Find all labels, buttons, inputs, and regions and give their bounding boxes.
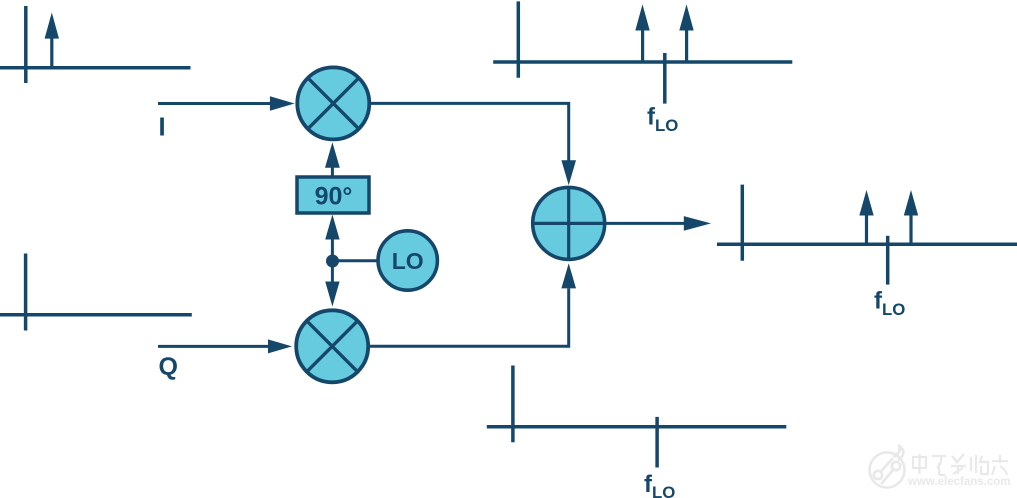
wire LO circle to junction [332, 259, 378, 262]
spectrum TR vertical axis [517, 1, 521, 77]
svg-text:fLO: fLO [874, 288, 905, 319]
spectrum B horizontal axis [487, 425, 787, 429]
watermark elecfans logo [870, 445, 905, 488]
spectrum B vertical axis [511, 366, 515, 443]
wire bottom mixer to summer [369, 263, 576, 346]
spectrum TR horizontal axis [493, 60, 792, 64]
wire Q input [158, 339, 292, 353]
svg-text:LO: LO [392, 248, 424, 274]
spectrum B f_LO tick [655, 417, 659, 468]
wire LO to top mixer (arrow up into mixer) [325, 142, 340, 177]
spectrum R: final output spectrum [717, 185, 1017, 285]
wire I input [158, 96, 295, 110]
90 degree phase shift box [297, 177, 369, 213]
svg-text:Q: Q [159, 353, 178, 381]
summer (adder) [533, 187, 605, 259]
svg-text:www.elecfans.com: www.elecfans.com [907, 476, 1010, 488]
spectrum R impulse arrow 1 [859, 190, 873, 244]
spectrum TL vertical axis [24, 6, 28, 83]
svg-text:fLO: fLO [647, 104, 678, 135]
watermark chinese glyphs (approximated strokes) [913, 454, 1008, 475]
spectrum TR impulse arrow 1 [635, 4, 649, 62]
spectrum BL horizontal axis [0, 313, 192, 317]
spectrum TL impulse arrow [45, 13, 59, 68]
spectrum R horizontal axis [717, 243, 1017, 247]
spectrum R f_LO tick [886, 236, 890, 285]
svg-text:I: I [159, 113, 166, 141]
svg-text:fLO: fLO [644, 471, 675, 498]
wire summer output arrow [606, 216, 711, 231]
spectrum TL horizontal axis [0, 66, 191, 70]
wire junction to 90 box (arrow up into box) [325, 215, 339, 261]
mixer top (I mixer) [297, 67, 369, 139]
spectrum R vertical axis [741, 185, 745, 261]
junction dot LO node [326, 255, 339, 268]
svg-text:90°: 90° [315, 183, 353, 211]
mixer bottom (Q mixer) [296, 310, 368, 382]
spectrum R impulse arrow 2 [904, 190, 918, 244]
spectrum TR impulse arrow 2 [679, 4, 693, 62]
wire junction to bottom mixer (arrow down into mixer) [325, 260, 339, 306]
LO oscillator circle [378, 231, 437, 290]
spectrum TR: upper output spectrum [493, 1, 792, 103]
spectrum B: lower LO feedthrough spectrum [487, 366, 787, 468]
spectrum BL vertical axis [24, 254, 28, 331]
spectrum TR f_LO tick [663, 53, 667, 104]
spectrum TL: I-input spectrum [0, 6, 191, 83]
wire top mixer to summer [371, 103, 576, 185]
spectrum BL: Q-input spectrum [0, 254, 192, 331]
